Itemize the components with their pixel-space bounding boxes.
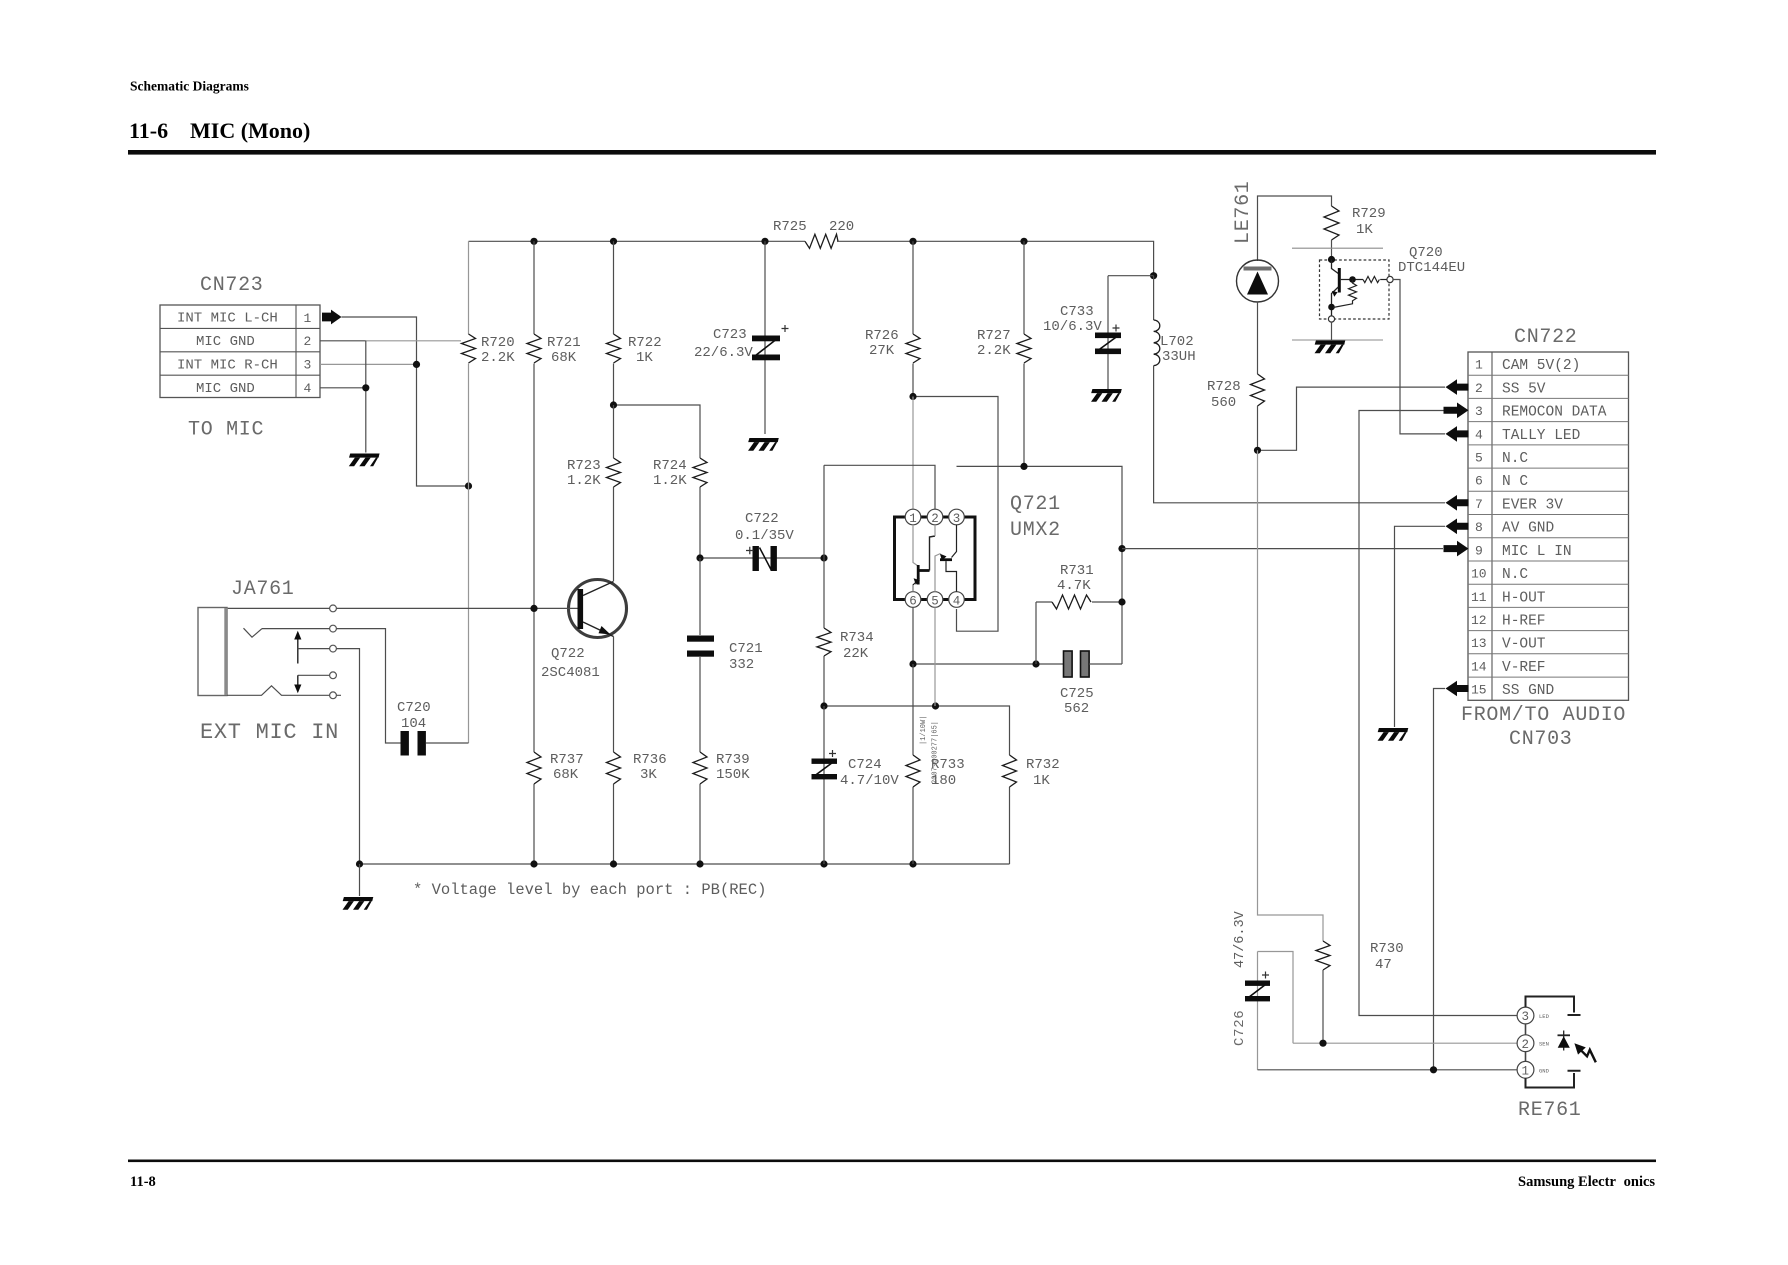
resistor R739 <box>693 752 707 864</box>
resistor R726 <box>906 241 920 396</box>
wire: CN723 pin1 to MIC junction <box>342 317 469 486</box>
wire: R726 bottom node across to Q721 pin4 riser <box>913 397 998 632</box>
svg-text:9: 9 <box>1475 543 1483 558</box>
svg-text:R724: R724 <box>653 458 687 474</box>
resistor R721 <box>527 241 541 608</box>
resistor R731 (horizontal) <box>1036 595 1122 664</box>
svg-text:2: 2 <box>1475 381 1483 396</box>
svg-text:562: 562 <box>1064 701 1089 717</box>
frame line above Q720 <box>1292 247 1383 249</box>
svg-text:R736: R736 <box>633 752 667 768</box>
transistor Q722 (2SC4081) <box>569 580 627 638</box>
capacitor C720 <box>401 731 469 756</box>
resistor R733 <box>906 664 920 864</box>
svg-text:MIC GND: MIC GND <box>196 334 255 350</box>
wire: RE761 pin2 net <box>1293 1042 1517 1044</box>
svg-text:TO MIC: TO MIC <box>188 419 264 442</box>
svg-text:SS 5V: SS 5V <box>1502 381 1546 397</box>
wire: Q720 output to CN722 pin4 (TALLY LED) <box>1393 280 1445 434</box>
svg-text:Samsung Electronics: Samsung Electronics <box>1518 1174 1655 1190</box>
svg-text:R721: R721 <box>547 335 581 351</box>
svg-text:N.C: N.C <box>1502 451 1528 467</box>
frame line below Q720 <box>1292 339 1383 341</box>
svg-text:68K: 68K <box>553 767 579 783</box>
wire: R722 bottom node to R724 top <box>614 405 701 458</box>
svg-text:68K: 68K <box>551 350 577 366</box>
svg-text:H-REF: H-REF <box>1502 614 1546 630</box>
svg-text:5: 5 <box>931 594 939 608</box>
capacitor C724 (polar) <box>812 706 838 864</box>
svg-text:V-OUT: V-OUT <box>1502 637 1546 653</box>
svg-text:2: 2 <box>304 334 312 349</box>
svg-text:1.2K: 1.2K <box>653 473 687 489</box>
jack switch contact 2 (peak) and stub <box>227 686 341 696</box>
jack switch arrow 1 (up) <box>294 631 301 664</box>
ground below C723 <box>748 438 779 451</box>
svg-text:4: 4 <box>953 594 961 608</box>
svg-text:R732: R732 <box>1026 757 1060 773</box>
svg-text:8: 8 <box>1475 520 1483 535</box>
svg-text:C725: C725 <box>1060 686 1094 702</box>
capacitor C723 (polar) <box>752 241 789 434</box>
svg-text:Q721: Q721 <box>1010 493 1061 516</box>
svg-text:|1/10W|: |1/10W| <box>920 716 928 745</box>
svg-text:SS GND: SS GND <box>1502 683 1554 699</box>
svg-text:2SC4081: 2SC4081 <box>541 665 600 681</box>
svg-text:C721: C721 <box>729 641 763 657</box>
svg-text:C723: C723 <box>713 327 747 343</box>
junction SS GND riser / pin1 net <box>1430 1066 1437 1073</box>
svg-text:11-8: 11-8 <box>130 1174 156 1190</box>
svg-text:12: 12 <box>1471 613 1487 628</box>
svg-text:AV GND: AV GND <box>1502 521 1554 537</box>
connector CN723 table <box>160 305 320 398</box>
wire: CN722 pin8 (AV GND) to ground <box>1395 526 1446 727</box>
capacitor C733 (polar) <box>1095 276 1154 389</box>
svg-text:R727: R727 <box>977 328 1011 344</box>
LED LE761 <box>1237 260 1279 374</box>
svg-text:MIC L IN: MIC L IN <box>1502 544 1572 560</box>
svg-text:LED: LED <box>1539 1013 1550 1020</box>
svg-text:RE761: RE761 <box>1518 1099 1582 1122</box>
svg-text:220: 220 <box>829 219 854 235</box>
svg-text:1: 1 <box>1475 358 1483 373</box>
svg-text:R722: R722 <box>628 335 662 351</box>
wire: Q721 pin1 riser <box>912 397 914 510</box>
svg-text:V-REF: V-REF <box>1502 660 1546 676</box>
wire: Q721 pin5 down <box>934 607 936 706</box>
CN722 pin4 arrow (left) <box>1446 426 1469 442</box>
svg-text:C726: C726 <box>1232 1010 1248 1046</box>
svg-text:LE761: LE761 <box>1232 180 1255 244</box>
footer rule <box>128 1160 1656 1163</box>
svg-text:Q722: Q722 <box>551 646 585 662</box>
svg-text:N C: N C <box>1502 474 1528 490</box>
CN722 pin2 arrow (left) <box>1446 379 1469 395</box>
svg-text:3: 3 <box>304 358 312 373</box>
svg-text:3: 3 <box>1475 404 1483 419</box>
wire: emitter node row (R734/pin5/R732) <box>824 706 1010 864</box>
wire: RE761 pin1 ground net <box>1258 1069 1518 1071</box>
ground symbol below CN723 <box>349 454 380 467</box>
svg-text:14: 14 <box>1471 660 1487 675</box>
resistor R724 <box>693 458 707 558</box>
svg-text:7: 7 <box>1475 497 1483 512</box>
svg-text:4.7/10V: 4.7/10V <box>840 773 899 789</box>
svg-text:6: 6 <box>909 594 917 608</box>
IC Q721 UMX2 package <box>895 509 976 608</box>
svg-text:22/6.3V: 22/6.3V <box>694 345 753 361</box>
wire: CN723 pin4 to ground stem <box>320 341 366 453</box>
svg-text:CN722: CN722 <box>1514 326 1578 349</box>
Q721 internal transistor B (right) <box>935 525 957 592</box>
svg-text:150K: 150K <box>716 767 750 783</box>
svg-text:15: 15 <box>1471 683 1487 698</box>
svg-text:C724: C724 <box>848 757 882 773</box>
svg-text:2: 2 <box>931 512 939 526</box>
wire: CN723 pin2 to ground rail <box>320 340 366 342</box>
svg-text:TALLY LED: TALLY LED <box>1502 428 1580 444</box>
svg-text:0.1/35V: 0.1/35V <box>735 528 794 544</box>
svg-text:3K: 3K <box>640 767 657 783</box>
svg-text:R739: R739 <box>716 752 750 768</box>
svg-text:DTC144EU: DTC144EU <box>1398 260 1465 276</box>
junction R730 bottom <box>1319 1040 1326 1047</box>
resistor R729 <box>1324 206 1339 259</box>
svg-text:13: 13 <box>1471 636 1487 651</box>
ground symbol below rail <box>343 897 374 910</box>
connector CN722 table <box>1468 352 1629 700</box>
CN722 pin names <box>1502 358 1607 699</box>
jack lower pole line <box>298 674 330 676</box>
wire: top supply bus <box>469 241 1154 275</box>
svg-text:SEN: SEN <box>1539 1041 1549 1048</box>
capacitor C721 <box>687 558 714 752</box>
svg-text:1.2K: 1.2K <box>567 473 601 489</box>
CN722 pin9 arrow (right) <box>1444 541 1469 557</box>
svg-text:MIC GND: MIC GND <box>196 381 255 397</box>
svg-text:H-OUT: H-OUT <box>1502 590 1546 606</box>
resistor R732 <box>1003 755 1017 787</box>
junction CN723 nets <box>362 361 472 490</box>
svg-text:3: 3 <box>953 512 961 526</box>
svg-text:2007-000277|65|: 2007-000277|65| <box>932 721 940 784</box>
svg-text:CAM 5V(2): CAM 5V(2) <box>1502 358 1580 374</box>
resistor R736 <box>607 752 621 864</box>
wire: CN722 pin3 (REMOCON DATA) down to RE761 pin3 <box>1359 411 1517 1016</box>
svg-text:27K: 27K <box>869 343 895 359</box>
svg-text:1: 1 <box>304 311 312 326</box>
junction dots on C725 right riser <box>1118 545 1125 606</box>
svg-text:INT MIC R-CH: INT MIC R-CH <box>177 358 278 374</box>
svg-text:33UH: 33UH <box>1162 349 1196 365</box>
resistor R722 <box>607 241 621 405</box>
svg-text:47/6.3V: 47/6.3V <box>1233 910 1248 968</box>
junction R728 bottom <box>1254 447 1261 454</box>
CN722 pin8 arrow (left) <box>1446 519 1469 535</box>
svg-text:4: 4 <box>1475 427 1483 442</box>
svg-text:3: 3 <box>1522 1010 1530 1024</box>
wire: jack sleeve contact to ground rail <box>298 649 360 864</box>
R733 part-number vertical notes <box>920 716 940 784</box>
wire: R728 node to CN722 pin2 (SS 5V) <box>1258 387 1446 450</box>
wire: Q721 pin6 down to C725 left node <box>912 607 914 664</box>
IR receiver RE761 <box>1517 997 1580 1088</box>
ground below Q720 <box>1315 341 1346 354</box>
svg-text:47: 47 <box>1375 957 1392 973</box>
svg-text:* Voltage level by each port :: * Voltage level by each port : PB(REC) <box>413 881 766 899</box>
svg-text:JA761: JA761 <box>231 578 295 601</box>
wire: bottom ground rail <box>360 863 1010 865</box>
svg-text:N.C: N.C <box>1502 567 1528 583</box>
digital transistor Q720 DTC144EU <box>1320 256 1394 340</box>
resistor R727 <box>1017 241 1031 466</box>
ground stem below rail <box>359 864 361 896</box>
inductor L702 <box>1154 276 1445 503</box>
wire: C725 left lead <box>913 663 1063 665</box>
svg-text:R734: R734 <box>840 630 874 646</box>
junction dots on top bus <box>530 238 1157 280</box>
RE761 internal LED diode <box>1558 1031 1571 1051</box>
svg-text:R729: R729 <box>1352 206 1386 222</box>
svg-text:1: 1 <box>1522 1065 1530 1079</box>
svg-text:2.2K: 2.2K <box>481 350 515 366</box>
svg-text:6: 6 <box>1475 474 1483 489</box>
svg-text:R723: R723 <box>567 458 601 474</box>
jack JA761 body <box>198 608 227 696</box>
resistor R728 <box>1251 374 1265 450</box>
wire: Q722 emitter down to R736 <box>613 637 615 753</box>
svg-text:C722: C722 <box>745 511 779 527</box>
svg-text:5: 5 <box>1475 451 1483 466</box>
wire: jack tip to Q722 base <box>227 607 578 609</box>
svg-text:R731: R731 <box>1060 563 1094 579</box>
jack switch contact 1 (check mark) <box>244 628 263 637</box>
Q721 internal transistor A (left) <box>913 525 935 592</box>
junction R727 bottom <box>1020 463 1027 470</box>
junction dots C722 ends <box>696 554 827 561</box>
svg-text:1K: 1K <box>1356 222 1373 238</box>
resistor R737 <box>527 608 541 864</box>
svg-text:2.2K: 2.2K <box>977 343 1011 359</box>
svg-text:1: 1 <box>909 512 917 526</box>
junction R726/Q721 pin1 node <box>909 393 916 400</box>
junction R722/R723/R724 node <box>610 401 617 408</box>
svg-text:R726: R726 <box>865 328 899 344</box>
CN723 pin1 output arrow <box>322 310 342 325</box>
svg-text:10/6.3V: 10/6.3V <box>1043 319 1102 335</box>
svg-text:1K: 1K <box>1033 773 1050 789</box>
svg-text:EVER 3V: EVER 3V <box>1502 497 1563 513</box>
svg-text:FROM/TO AUDIO: FROM/TO AUDIO <box>1461 704 1626 727</box>
svg-text:CN703: CN703 <box>1509 728 1573 751</box>
CN722 pin15 arrow (left) <box>1446 681 1469 697</box>
junction dots C725 left wire <box>909 660 1039 667</box>
svg-text:22K: 22K <box>843 646 869 662</box>
wire: Q721 pin3 node to C725 right riser <box>957 466 1123 664</box>
wire: CN722 pin15 (SS GND) down to RE761 pin1 net <box>1434 689 1446 1070</box>
svg-text:UMX2: UMX2 <box>1010 519 1061 542</box>
junction dots emitter row <box>820 702 939 709</box>
svg-text:CN723: CN723 <box>200 274 264 297</box>
junction dots on ground rail <box>356 860 917 867</box>
svg-text:4: 4 <box>304 381 312 396</box>
svg-text:1K: 1K <box>636 350 653 366</box>
C726 vertical labels <box>1232 910 1248 1046</box>
wire: CN723 pin3 to junction <box>320 363 417 365</box>
resistor R720 <box>462 241 476 743</box>
svg-text:11-6: 11-6 <box>129 118 168 143</box>
CN722 pin3 arrow (right) <box>1444 403 1469 419</box>
capacitor C726 (polar) <box>1245 952 1293 1070</box>
svg-text:Q720: Q720 <box>1409 245 1443 261</box>
svg-text:R730: R730 <box>1370 941 1404 957</box>
svg-text:11: 11 <box>1471 590 1487 605</box>
wire: jack ring contact to C720 <box>262 629 401 743</box>
svg-text:EXT MIC IN: EXT MIC IN <box>200 720 339 745</box>
svg-text:MIC (Mono): MIC (Mono) <box>190 118 310 143</box>
svg-text:L702: L702 <box>1160 334 1194 350</box>
svg-text:560: 560 <box>1211 395 1236 411</box>
svg-text:R728: R728 <box>1207 379 1241 395</box>
resistor R723 <box>607 405 621 581</box>
ground below C733 <box>1091 389 1122 402</box>
svg-text:2: 2 <box>1522 1038 1530 1052</box>
jack switch arrow 2 (down) <box>294 675 301 693</box>
svg-text:REMOCON DATA: REMOCON DATA <box>1502 405 1607 421</box>
capacitor C725 <box>1064 651 1123 677</box>
resistor R725 (horizontal, in top bus) <box>805 234 838 248</box>
wire: MIC L IN from Q721 node to CN722 pin9 <box>1122 548 1443 550</box>
wire: R728 node down to R730 <box>1258 450 1324 941</box>
capacitor C722 (polar, horizontal) <box>700 546 824 571</box>
svg-text:10: 10 <box>1471 567 1487 582</box>
svg-text:C720: C720 <box>397 700 431 716</box>
svg-text:R725: R725 <box>773 219 807 235</box>
wire: LE761 top to R729 top <box>1258 196 1332 261</box>
CN722 pin numbers <box>1471 358 1487 698</box>
CN722 pin7 arrow (left) <box>1446 495 1469 511</box>
title rule <box>128 150 1656 155</box>
resistor R730 <box>1316 941 1330 1043</box>
jack open contact circles <box>330 605 337 699</box>
svg-text:R737: R737 <box>550 752 584 768</box>
svg-text:332: 332 <box>729 657 754 673</box>
resistor R734 <box>817 465 831 706</box>
svg-text:INT MIC L-CH: INT MIC L-CH <box>177 311 278 327</box>
svg-text:R720: R720 <box>481 335 515 351</box>
svg-text:104: 104 <box>401 716 426 732</box>
svg-text:C733: C733 <box>1060 304 1094 320</box>
svg-text:Schematic Diagrams: Schematic Diagrams <box>130 79 249 94</box>
svg-text:4.7K: 4.7K <box>1057 578 1091 594</box>
ground below AV GND wire <box>1378 728 1409 741</box>
svg-text:GND: GND <box>1539 1067 1550 1074</box>
junction R721/R737/base <box>530 605 537 612</box>
RE761 IR beam arrow <box>1574 1043 1595 1062</box>
wire: R734 top node to Q721 pin2 <box>824 465 935 509</box>
